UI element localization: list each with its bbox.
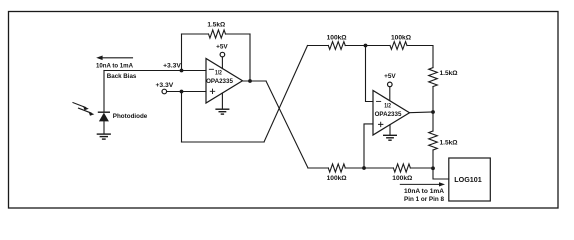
wire: feedback right vertical to output <box>249 34 251 81</box>
current arrow (10nA to 1mA, pointing left) <box>96 56 132 61</box>
svg-text:100kΩ: 100kΩ <box>327 175 347 182</box>
svg-text:LOG101: LOG101 <box>454 177 482 184</box>
label 10nA to 1mA (output) <box>404 188 445 195</box>
node: bottom rail junction <box>362 166 366 170</box>
svg-text:1/2: 1/2 <box>215 71 222 77</box>
label 100kohm (R3) <box>391 34 411 41</box>
svg-text:Back Bias: Back Bias <box>107 73 137 80</box>
svg-text:OPA2335: OPA2335 <box>206 78 233 85</box>
LOG101 box <box>449 158 491 201</box>
label 100kohm (R5) <box>392 175 412 182</box>
label +5V (U1A) <box>216 43 228 50</box>
wire: top rail left <box>308 45 329 47</box>
label 100kohm (R2) <box>327 34 347 41</box>
wire: photodiode node horizontal to U1A inverting input <box>104 70 206 72</box>
wire: feedback top left segment <box>182 33 209 35</box>
resistor R5 100k (bottom right) <box>393 164 410 172</box>
node: output junction U1A <box>248 79 252 83</box>
wire: U1B inverting input from top rail <box>366 46 374 102</box>
wire: jog into LOG101 <box>433 168 449 179</box>
wire: right column upper-mid <box>432 87 434 112</box>
+5V terminal (U1B) <box>388 82 393 100</box>
wire: bottom rail middle <box>345 167 393 169</box>
svg-text:100kΩ: 100kΩ <box>392 175 412 182</box>
op-amp U1A (1/2 OPA2335) <box>206 59 243 104</box>
wire: vertical from node down to photodiode <box>103 71 105 113</box>
+5V terminal (U1A) <box>220 52 225 68</box>
svg-text:100kΩ: 100kΩ <box>391 34 411 41</box>
svg-text:+3.3V: +3.3V <box>163 63 182 70</box>
svg-text:1/2: 1/2 <box>384 104 391 110</box>
resistor R1 1.5k feedback <box>209 30 226 38</box>
op-amp U1B (1/2 OPA2335) <box>373 91 410 136</box>
ground (photodiode) <box>97 134 110 139</box>
svg-text:100kΩ: 100kΩ <box>327 34 347 41</box>
resistor R7 1.5k (right column bottom, vertical) <box>429 131 438 150</box>
resistor R2 100k (top left) <box>328 42 345 50</box>
wire: bottom rail right <box>410 167 433 169</box>
wire: U1B non-inverting input to bottom rail <box>364 124 373 168</box>
svg-text:+5V: +5V <box>384 73 396 80</box>
wire: diagonal up to top rail <box>264 46 308 143</box>
label +3.3V (non-inverting input) <box>156 82 175 89</box>
svg-text:1.5kΩ: 1.5kΩ <box>440 139 458 146</box>
svg-text:10nA to 1mA: 10nA to 1mA <box>404 188 445 195</box>
svg-text:+5V: +5V <box>216 43 228 50</box>
wire: junction down vertical (non-inv source) <box>181 92 183 143</box>
node: top rail junction <box>364 44 368 48</box>
wire: feedback top right segment <box>226 33 251 35</box>
ground (U1B) <box>384 135 397 140</box>
border frame <box>9 12 559 209</box>
wire: horizontal under U1A <box>182 141 265 143</box>
wire: terminal to U1A non-inverting input <box>167 91 206 93</box>
label Pin 1 or Pin 8 <box>404 196 445 203</box>
wire: diagonal output down to bottom rail <box>266 81 308 168</box>
label +3.3V (inverting input) <box>163 63 182 70</box>
svg-text:OPA2335: OPA2335 <box>375 111 402 118</box>
label +5V (U1B) <box>384 73 396 80</box>
label 1.5kohm (R6) <box>440 70 458 77</box>
resistor R6 1.5k (right column top, vertical) <box>429 68 438 87</box>
ground (U1A) <box>216 109 229 114</box>
label Back Bias <box>107 73 137 80</box>
wire: right column to bottom rail <box>432 150 434 168</box>
svg-text:+3.3V: +3.3V <box>156 82 175 89</box>
wire: U1B ground stem <box>389 125 391 135</box>
wire: bottom rail left <box>308 167 328 169</box>
svg-text:1.5kΩ: 1.5kΩ <box>440 70 458 77</box>
svg-text:Pin 1 or Pin 8: Pin 1 or Pin 8 <box>404 196 445 203</box>
node: bottom rail right junction <box>431 166 435 170</box>
label 1.5kohm (R1) <box>207 22 225 29</box>
svg-text:Photodiode: Photodiode <box>113 113 148 120</box>
wire: top rail middle <box>345 45 390 47</box>
wire: U1A ground stem <box>221 93 223 109</box>
node: junction on non-inverting input <box>180 90 184 94</box>
label Photodiode <box>113 113 148 120</box>
node: junction feedback / inverting input <box>180 69 184 73</box>
label 1.5kohm (R7) <box>440 139 458 146</box>
wire: right column mid <box>432 112 434 131</box>
wire: feedback left vertical <box>181 34 183 71</box>
label 10nA to 1mA (back bias current) <box>96 62 134 69</box>
resistor R4 100k (bottom left) <box>328 164 345 172</box>
label 100kohm (R4) <box>327 175 347 182</box>
wire: U1A output horizontal <box>243 80 267 82</box>
photodiode D1 <box>99 112 110 134</box>
svg-text:1.5kΩ: 1.5kΩ <box>207 22 225 29</box>
output arrow to LOG101 <box>400 182 445 186</box>
wire: top rail right to corner <box>407 46 433 68</box>
light arrows into photodiode <box>73 103 94 116</box>
node: U1B output junction <box>431 110 435 114</box>
resistor R3 100k (top right) <box>390 42 407 50</box>
terminal +3.3V (non-inverting input) <box>162 89 167 94</box>
svg-text:10nA to 1mA: 10nA to 1mA <box>96 62 134 69</box>
wire: U1B output to junction <box>410 111 434 114</box>
